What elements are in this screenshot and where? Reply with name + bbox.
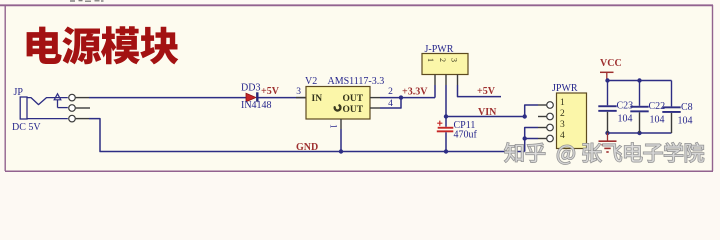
capacitor C8 value 104 — [678, 116, 693, 127]
wire J-PWR pin3 to +5V stub — [458, 85, 502, 97]
junction node +3.3V — [399, 95, 403, 99]
diode DD3 designator — [241, 83, 260, 94]
svg-text:3: 3 — [560, 120, 565, 130]
capacitor C8 — [662, 81, 680, 134]
capacitor CP11 plates — [437, 127, 454, 132]
connector JP dc jack body — [20, 94, 68, 119]
header J-PWR pin 1 number rotated — [426, 58, 435, 62]
sheet border frame — [0, 5, 713, 171]
connector JPWR body — [557, 93, 587, 149]
connector JPWR pin 1 circle — [538, 102, 553, 109]
junction CP11 gnd on rail — [444, 149, 448, 153]
svg-text:104: 104 — [650, 114, 665, 125]
ground symbol caps — [599, 133, 617, 152]
capacitor CP11 value 470uf — [454, 130, 478, 141]
junction cap C22 top — [637, 78, 641, 82]
connector JPWR pin 3 number — [560, 120, 565, 130]
connector JPWR designator — [552, 83, 578, 94]
wire cap top rail — [608, 80, 672, 82]
connector JP value DC 5V — [12, 122, 41, 133]
svg-text:1: 1 — [560, 98, 565, 108]
svg-text:VCC: VCC — [600, 58, 622, 69]
regulator V2 pin name IN — [312, 94, 323, 104]
svg-text:DD3: DD3 — [241, 83, 260, 94]
capacitor C23 — [598, 81, 616, 134]
net label +5V left — [261, 86, 280, 97]
wire VIN node to CP11 — [445, 117, 447, 127]
svg-text:2: 2 — [560, 109, 565, 119]
connector JPWR pin 4 circle — [538, 135, 553, 142]
svg-text:470uf: 470uf — [454, 130, 478, 141]
svg-text:DC 5V: DC 5V — [12, 122, 41, 133]
capacitor CP11 designator — [454, 120, 476, 131]
junction VIN node — [444, 114, 448, 118]
svg-text:GND: GND — [296, 142, 318, 153]
regulator V2 pin 4 number — [388, 99, 393, 109]
wire DD3 to V2 pin3 — [259, 97, 307, 99]
JP pin 2 circle — [69, 105, 90, 112]
connector JPWR pin 3 circle — [538, 124, 553, 131]
svg-text:4: 4 — [560, 131, 565, 141]
wire VIN node to JPWR — [446, 116, 525, 118]
svg-text:1: 1 — [426, 58, 435, 62]
JP pin 1 circle — [69, 94, 89, 101]
capacitor C8 designator — [681, 102, 693, 113]
svg-text:2: 2 — [388, 87, 393, 97]
svg-text:+5V: +5V — [261, 86, 280, 97]
wire JPWR pin3 tie to gnd — [525, 128, 538, 139]
svg-text:104: 104 — [678, 116, 693, 127]
regulator V2 pin 1 number rotated — [329, 124, 339, 129]
wire cap bottom rail — [608, 132, 672, 134]
diode DD3 — [246, 92, 259, 102]
net label VIN — [478, 107, 497, 118]
header J-PWR pin2 stub — [445, 75, 447, 86]
wire JPWR pin4 to gnd rail — [525, 139, 538, 152]
junction vcc rail left — [605, 78, 609, 82]
header J-PWR pin3 stub — [457, 75, 459, 86]
svg-text:C8: C8 — [681, 102, 693, 113]
svg-text:OUT: OUT — [343, 105, 364, 115]
power port VCC bar — [600, 72, 614, 80]
svg-text:2: 2 — [438, 58, 447, 62]
wire CP11 to GND rail — [445, 132, 447, 151]
capacitor C23 value 104 — [618, 113, 633, 124]
svg-text:3: 3 — [450, 58, 459, 62]
header J-PWR body — [422, 54, 468, 75]
header J-PWR pin1 stub — [434, 75, 436, 86]
svg-text:+3.3V: +3.3V — [402, 87, 428, 98]
svg-text:+5V: +5V — [477, 86, 496, 97]
wire V2 pin1 to GND rail — [340, 129, 342, 152]
junction V2 gnd on rail — [339, 149, 343, 153]
svg-text:OUT: OUT — [343, 94, 364, 104]
junction JPWR vin tie — [523, 114, 527, 118]
wire JPWR pin1 tie to VIN — [525, 105, 538, 117]
svg-text:104: 104 — [618, 113, 633, 124]
diode DD3 value IN4148 — [241, 100, 272, 111]
connector JP designator — [14, 87, 24, 98]
svg-text:3: 3 — [296, 87, 301, 97]
JP pin 3 circle — [69, 115, 89, 122]
header J-PWR designator — [425, 44, 454, 55]
capacitor C22 — [630, 81, 648, 134]
regulator V2 pin name OUT top — [343, 94, 364, 104]
svg-text:IN4148: IN4148 — [241, 100, 272, 111]
power port VCC label — [600, 58, 622, 69]
title 电源模块 — [27, 26, 179, 64]
sheet background — [0, 0, 720, 181]
wire V2 pin4 up to node — [380, 98, 401, 108]
connector JPWR pin 2 circle — [538, 113, 553, 120]
header J-PWR pin 2 number rotated — [438, 58, 447, 62]
svg-text:AMS1117-3.3: AMS1117-3.3 — [328, 76, 385, 87]
regulator V2 pin 2 stub — [370, 97, 380, 99]
net label GND — [296, 142, 318, 153]
junction JPWR gnd tie — [523, 136, 527, 140]
svg-text:VIN: VIN — [478, 107, 497, 118]
regulator V2 pin 3 stub — [296, 97, 306, 99]
regulator V2 body — [306, 87, 370, 120]
connector JPWR pin 1 number — [560, 98, 565, 108]
regulator V2 pin 2 number — [388, 87, 393, 97]
net label +3.3V — [402, 87, 428, 98]
connector JPWR pin 4 number — [560, 131, 565, 141]
watermark zhihu — [505, 143, 704, 164]
capacitor C22 designator — [649, 101, 666, 112]
header J-PWR pin 3 number rotated — [450, 58, 459, 62]
regulator V2 tab symbol — [335, 105, 341, 110]
regulator V2 pin 1 stub — [340, 119, 342, 129]
wire J-PWR pin1 to +3.3V — [434, 85, 436, 98]
regulator V2 designator — [305, 76, 317, 87]
svg-text:IN: IN — [312, 94, 323, 104]
wire J-PWR pin2 to VIN node — [445, 85, 447, 117]
regulator V2 value AMS1117-3.3 — [328, 76, 385, 87]
net label +5V right — [477, 86, 496, 97]
wire V2 pin2 to +3.3V node — [380, 97, 435, 99]
regulator V2 pin name OUT bottom — [343, 105, 364, 115]
svg-text:V2: V2 — [305, 76, 317, 87]
cropped text remnant top edge — [70, 0, 104, 2]
junction cap C22 bottom — [637, 131, 641, 135]
regulator V2 pin 3 number — [296, 87, 301, 97]
capacitor CP11 plus sign — [437, 121, 442, 126]
regulator V2 pin 4 stub — [370, 107, 380, 109]
wire +5V from JP to DD3 — [89, 97, 246, 99]
junction cap C23 bottom — [605, 131, 609, 135]
svg-text:JP: JP — [14, 87, 24, 98]
connector JPWR pin 2 number — [560, 109, 565, 119]
svg-text:1: 1 — [329, 124, 339, 129]
capacitor C22 value 104 — [650, 114, 665, 125]
svg-text:JPWR: JPWR — [552, 83, 578, 94]
capacitor C23 designator — [617, 100, 634, 111]
wire GND from JP pin3 — [89, 119, 525, 152]
